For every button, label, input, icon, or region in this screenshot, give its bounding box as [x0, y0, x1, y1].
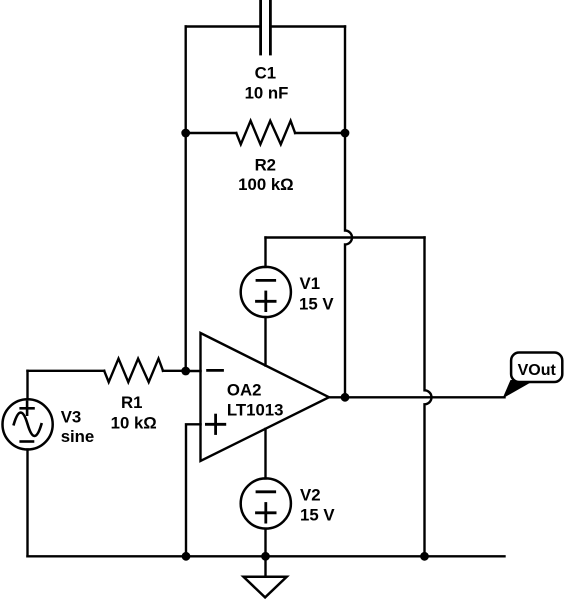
svg-text:sine: sine	[61, 427, 95, 446]
wire V2 top stub from op-amp V- pin	[264, 429, 266, 479]
svg-text:VOut: VOut	[518, 362, 557, 379]
svg-text:V2: V2	[300, 486, 321, 505]
svg-text:R1: R1	[121, 393, 142, 412]
wire C1 left lead	[186, 25, 261, 27]
wire V+ horizontal (V1 top to right rail)	[266, 236, 425, 238]
wire V1 bottom stub to op-amp V+ pin	[264, 317, 266, 366]
svg-text:10 kΩ: 10 kΩ	[111, 413, 157, 432]
resistor R2	[236, 121, 295, 145]
svg-text:15 V: 15 V	[299, 294, 334, 313]
node R2/C1 left junction	[181, 129, 190, 138]
wire V2 bottom stub	[264, 529, 266, 557]
node output junction	[341, 393, 350, 402]
svg-text:OA2: OA2	[227, 380, 262, 399]
node R2/C1 right junction	[341, 129, 350, 138]
svg-text:15 V: 15 V	[300, 505, 335, 524]
wire inverting input stub	[186, 370, 201, 372]
wire feedback rail with hop over V+ wire	[345, 133, 352, 397]
wire R1 right lead	[163, 370, 186, 372]
node inverting input junction	[181, 367, 190, 376]
svg-text:R2: R2	[255, 156, 276, 175]
resistor R1	[104, 359, 163, 383]
svg-text:V1: V1	[300, 274, 321, 293]
svg-text:100 kΩ: 100 kΩ	[238, 175, 293, 194]
voltage source V1	[241, 267, 291, 317]
wire V3 bottom to ground rail	[26, 450, 28, 557]
wire ground stub	[264, 556, 266, 577]
node V2/ground junction	[261, 552, 270, 561]
wire R2 left lead	[186, 132, 237, 134]
wire R2 right lead	[295, 132, 345, 134]
voltage source V3 (sine)	[3, 399, 53, 449]
svg-text:V3: V3	[61, 407, 82, 426]
node non-inverting/bottom rail junction	[182, 552, 191, 561]
svg-text:C1: C1	[255, 64, 276, 83]
svg-text:10 nF: 10 nF	[245, 84, 289, 103]
wire right rail with hop over output wire	[425, 238, 432, 557]
wire C1 right lead	[270, 25, 345, 27]
node right rail/bottom junction	[420, 552, 429, 561]
op-amp OA2	[201, 333, 330, 461]
wire bottom ground rail	[28, 555, 505, 557]
wire op-amp output	[329, 396, 505, 398]
capacitor C1	[261, 1, 271, 54]
wire V1 top stub	[264, 238, 266, 268]
wire left rail (R2 junction to inverting input)	[184, 133, 186, 371]
voltage source V2	[241, 478, 291, 528]
wire non-inverting input to bottom rail	[186, 424, 201, 556]
node VOut flag	[503, 353, 563, 399]
ground	[244, 577, 287, 598]
svg-text:LT1013: LT1013	[227, 400, 284, 419]
wire R1 left lead	[28, 370, 105, 372]
wire right rail top (C1 to R2 junction)	[344, 27, 346, 134]
wire V3 top stub	[26, 371, 28, 400]
wire left rail top (C1 to R2 junction)	[184, 27, 186, 134]
